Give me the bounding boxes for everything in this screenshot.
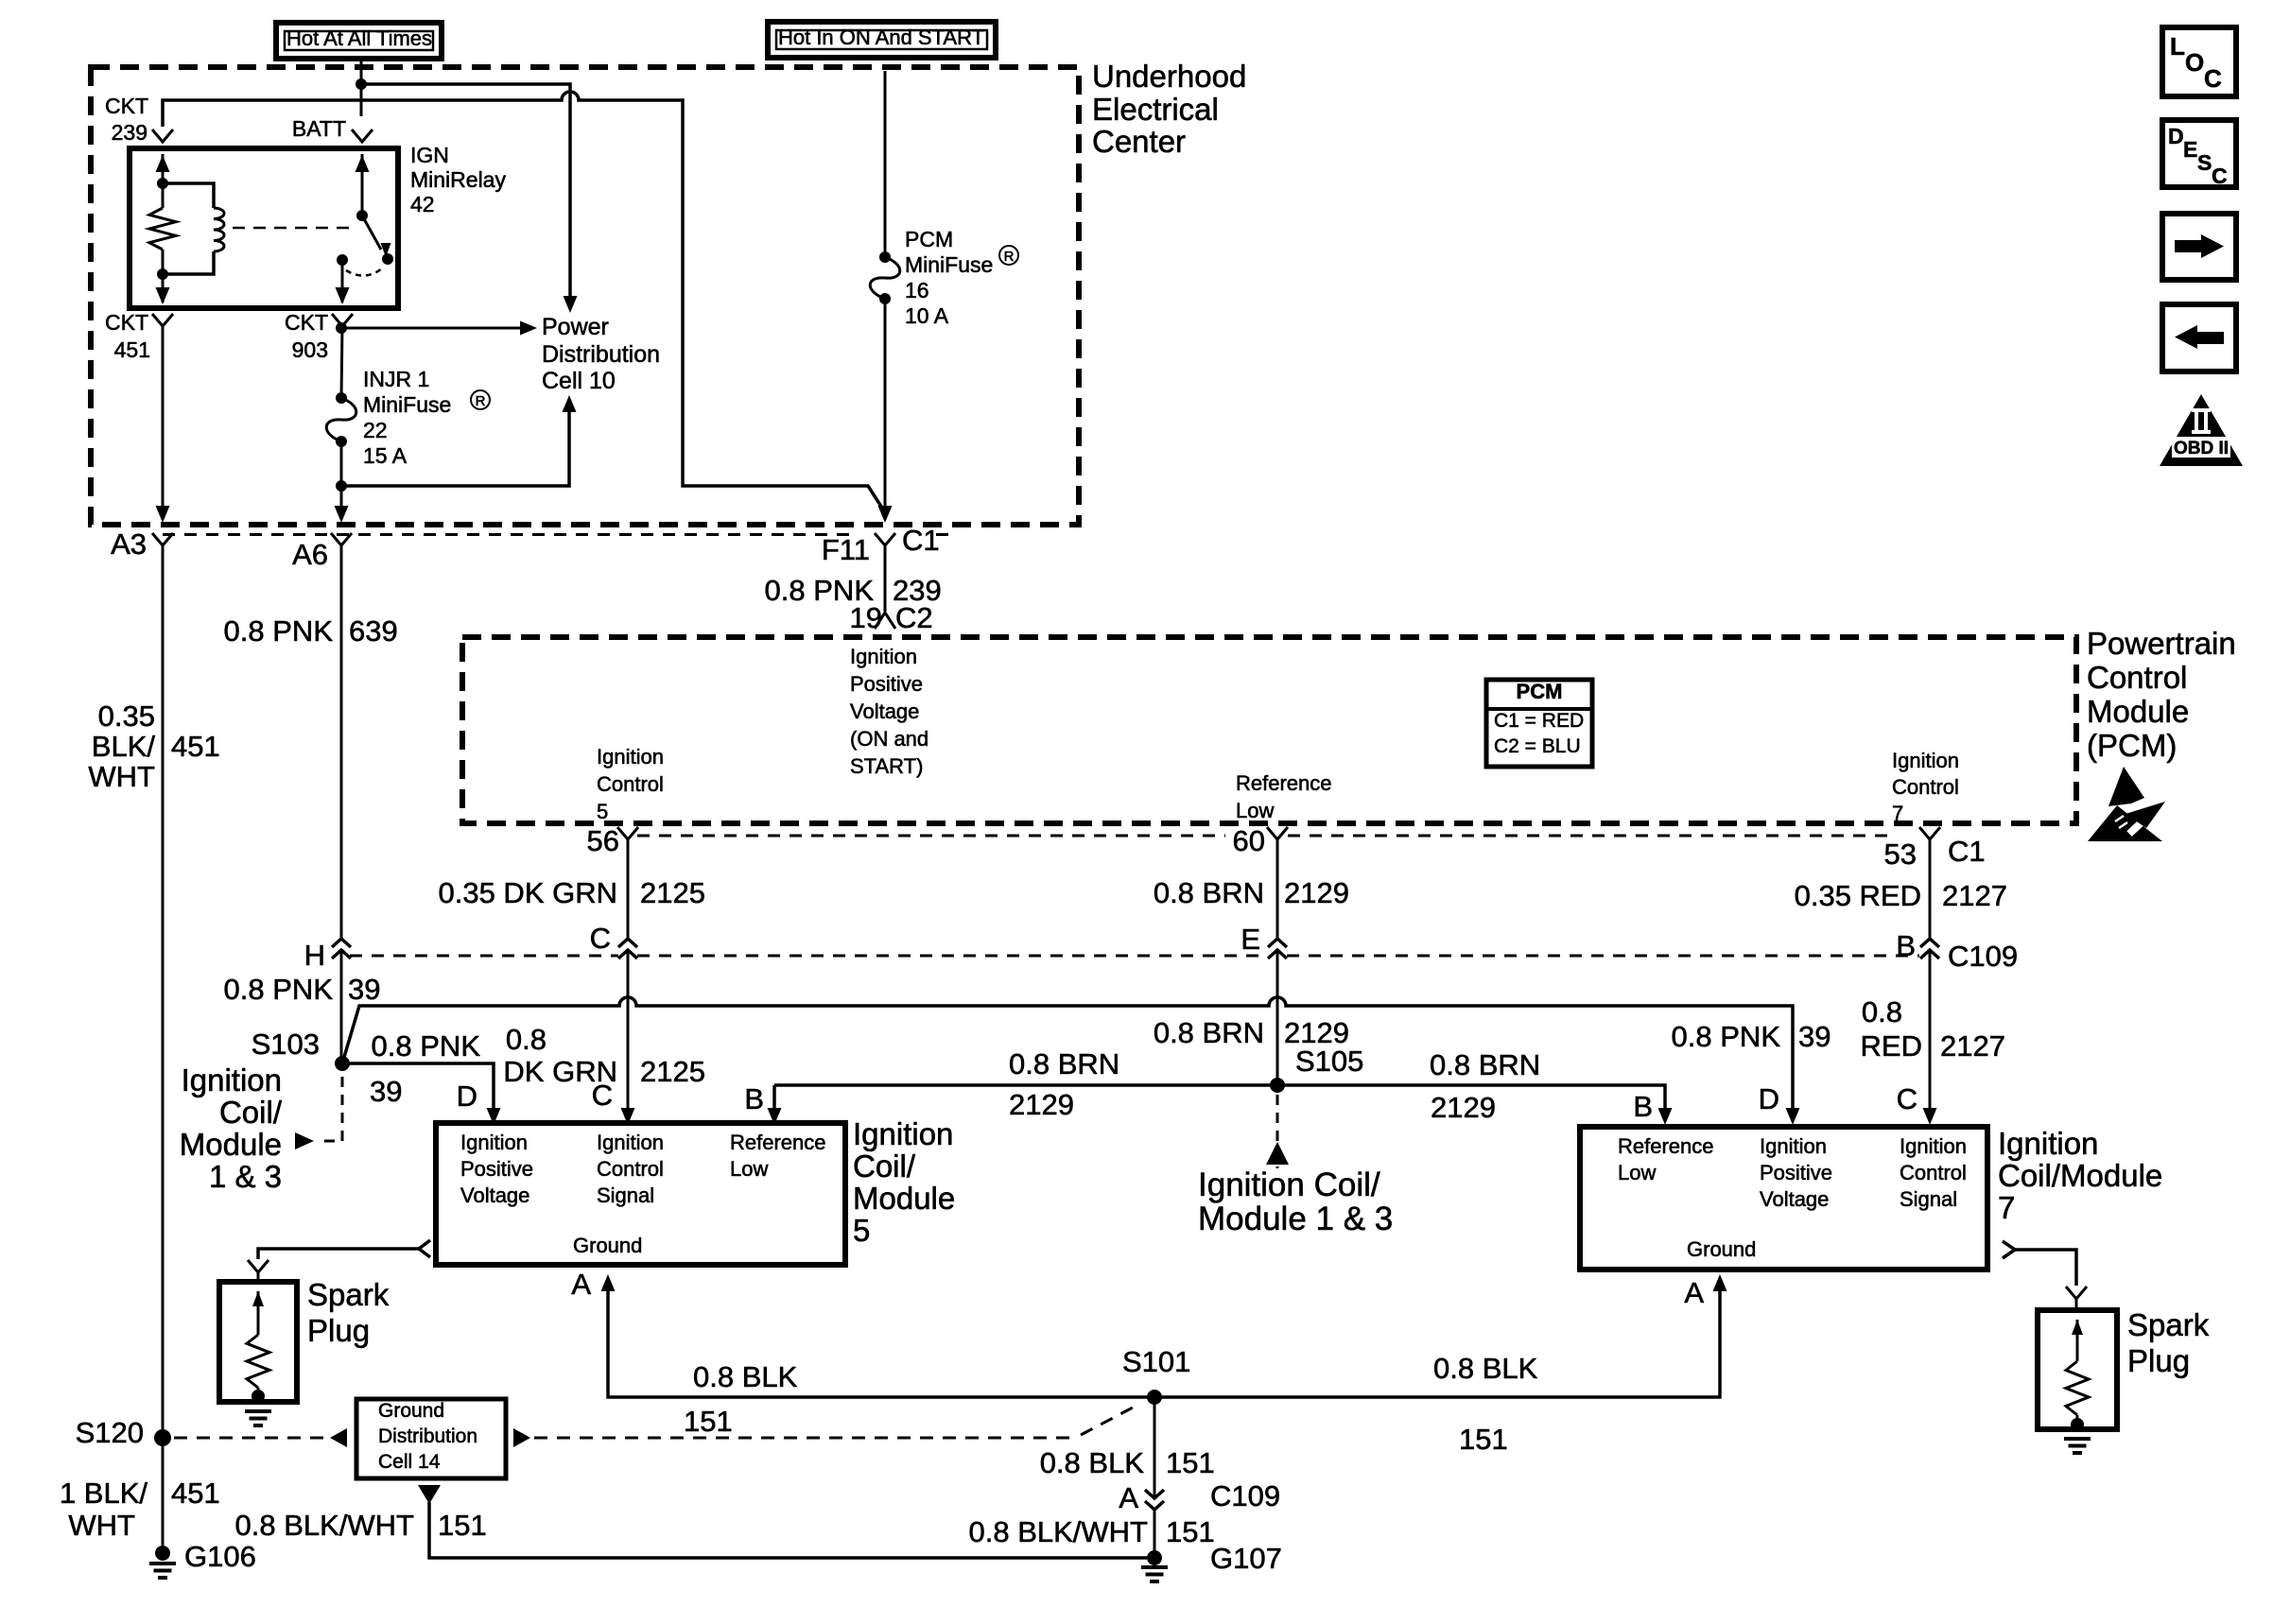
svg-text:39: 39 bbox=[1798, 1020, 1831, 1053]
svg-text:0.8 PNK: 0.8 PNK bbox=[372, 1029, 481, 1063]
label box: Hot At All Times bbox=[276, 23, 442, 59]
wire: S103 long run to right coil module D pin (0.8 PNK 39) bbox=[342, 997, 1793, 1114]
svg-text:Powertrain: Powertrain bbox=[2087, 626, 2236, 661]
right module spark output connector bbox=[2003, 1241, 2015, 1258]
svg-text:IGN: IGN bbox=[410, 143, 449, 167]
svg-text:Distribution: Distribution bbox=[378, 1425, 477, 1447]
C109 harness connector line (thin dashed) bbox=[350, 955, 618, 958]
svg-text:53: 53 bbox=[1884, 838, 1917, 871]
svg-text:151: 151 bbox=[1166, 1515, 1215, 1548]
svg-text:Spark: Spark bbox=[2127, 1307, 2210, 1342]
svg-text:Module: Module bbox=[2087, 694, 2189, 729]
svg-text:5: 5 bbox=[853, 1213, 870, 1248]
arrow to Ignition Coil/Module 1 & 3 bbox=[1266, 1142, 1289, 1165]
connector C at C109 bbox=[626, 940, 631, 950]
relay K: IGN MiniRelay 42 box bbox=[130, 148, 398, 308]
left module ground pin A arrow bbox=[601, 1274, 616, 1291]
ground: left spark plug bbox=[245, 1409, 271, 1413]
svg-text:42: 42 bbox=[410, 192, 435, 216]
svg-text:Plug: Plug bbox=[2127, 1343, 2190, 1378]
svg-text:5: 5 bbox=[597, 800, 608, 823]
node: junction to Power Distribution bbox=[336, 322, 347, 334]
svg-text:MiniFuse: MiniFuse bbox=[905, 252, 993, 277]
svg-text:OBD II: OBD II bbox=[2174, 439, 2229, 458]
svg-text:WHT: WHT bbox=[88, 760, 155, 793]
Powertrain Control Module dashed enclosure bbox=[462, 637, 2076, 823]
wire: RED 2127 to right module C pin bbox=[1923, 1108, 1937, 1125]
svg-text:Low: Low bbox=[1236, 799, 1274, 822]
node S103 splice bbox=[335, 1056, 350, 1071]
svg-text:Control: Control bbox=[597, 1157, 664, 1181]
svg-text:BATT: BATT bbox=[292, 116, 346, 141]
dashed link: Ground Distribution to S101 bbox=[513, 1428, 530, 1447]
svg-text:Ground: Ground bbox=[573, 1234, 642, 1257]
svg-text:Ignition Coil/: Ignition Coil/ bbox=[1198, 1166, 1380, 1203]
connector pin 56 bbox=[617, 827, 638, 839]
connector at right spark plug bbox=[2066, 1287, 2087, 1299]
connector CKT 451 below relay bbox=[152, 314, 173, 326]
svg-text:0.8 BLK: 0.8 BLK bbox=[1040, 1446, 1145, 1479]
connector pin 53 / C1 bbox=[1919, 827, 1940, 839]
connector B at C109 bbox=[1928, 940, 1933, 950]
node: spark plug (right) ground terminal bbox=[2071, 1418, 2084, 1431]
svg-text:0.8 BRN: 0.8 BRN bbox=[1154, 1016, 1264, 1049]
svg-text:151: 151 bbox=[438, 1509, 487, 1542]
svg-text:10 A: 10 A bbox=[905, 303, 949, 328]
svg-text:O: O bbox=[2185, 48, 2204, 77]
svg-text:0.8 BLK: 0.8 BLK bbox=[693, 1360, 798, 1393]
dashed link: S120 to Ground Distribution bbox=[174, 1437, 327, 1440]
svg-text:2125: 2125 bbox=[640, 876, 705, 909]
svg-text:C: C bbox=[2204, 64, 2222, 93]
svg-text:0.8 PNK: 0.8 PNK bbox=[224, 614, 334, 648]
node: relay switch pivot bbox=[356, 210, 368, 221]
svg-text:A: A bbox=[571, 1268, 591, 1301]
svg-text:0.8 PNK: 0.8 PNK bbox=[1672, 1020, 1781, 1053]
svg-text:Ignition: Ignition bbox=[1892, 749, 1959, 772]
connector CKT 239 at relay bbox=[152, 130, 173, 142]
Ground Distribution Cell 14 box bbox=[356, 1399, 506, 1478]
svg-text:D: D bbox=[457, 1080, 477, 1113]
svg-text:S120: S120 bbox=[76, 1416, 144, 1449]
svg-text:PCM: PCM bbox=[1517, 680, 1563, 703]
svg-text:2129: 2129 bbox=[1009, 1088, 1074, 1121]
node: ground G107 bbox=[1147, 1550, 1162, 1565]
connector A / C109 (ground drop) bbox=[1153, 1498, 1157, 1508]
connector 19 / C2 at PCM bbox=[875, 613, 895, 629]
svg-text:Control: Control bbox=[1892, 775, 1959, 799]
svg-text:Plug: Plug bbox=[307, 1313, 370, 1348]
ground G107 symbol bbox=[1141, 1565, 1168, 1569]
svg-text:Ignition: Ignition bbox=[1900, 1134, 1967, 1158]
svg-text:A: A bbox=[1119, 1481, 1138, 1514]
svg-text:Ignition: Ignition bbox=[182, 1063, 282, 1097]
connector at left spark plug bbox=[248, 1260, 269, 1272]
svg-text:7: 7 bbox=[1892, 802, 1903, 825]
svg-text:PCM: PCM bbox=[905, 227, 953, 251]
svg-text:Ignition: Ignition bbox=[1760, 1134, 1827, 1158]
svg-text:639: 639 bbox=[349, 614, 398, 648]
icon: back arrow box bbox=[2162, 304, 2236, 371]
svg-text:0.8: 0.8 bbox=[506, 1023, 547, 1056]
svg-text:B: B bbox=[1896, 929, 1916, 962]
svg-text:C1 = RED: C1 = RED bbox=[1494, 710, 1584, 732]
ESD sensitivity symbol bbox=[2088, 767, 2167, 841]
svg-text:Center: Center bbox=[1092, 124, 1186, 159]
wire: S103 to left coil module D pin (0.8 PNK 39) bbox=[342, 1063, 494, 1114]
svg-text:Control: Control bbox=[1900, 1161, 1967, 1184]
svg-text:C: C bbox=[2212, 164, 2228, 188]
node: relay common contact bbox=[337, 254, 348, 266]
wire: PCM fuse output down to C1 bbox=[884, 299, 887, 510]
svg-text:MiniRelay: MiniRelay bbox=[410, 167, 506, 192]
svg-text:2127: 2127 bbox=[1940, 1029, 2005, 1063]
node S105 splice bbox=[1270, 1078, 1285, 1093]
connector H at C109 bbox=[339, 940, 344, 950]
svg-text:D: D bbox=[1759, 1082, 1779, 1115]
svg-text:Underhood: Underhood bbox=[1092, 59, 1246, 94]
wire: left module to spark plug bbox=[258, 1249, 419, 1259]
svg-text:0.35 DK GRN: 0.35 DK GRN bbox=[438, 876, 617, 909]
svg-text:C: C bbox=[590, 922, 611, 955]
node: relay switch contact bbox=[382, 253, 393, 265]
svg-text:Low: Low bbox=[1618, 1161, 1656, 1184]
connector F11 / C1 bbox=[875, 533, 895, 545]
wire: battery feed to Power Distribution (down arrow at x=603) bbox=[361, 84, 570, 300]
svg-text:Voltage: Voltage bbox=[460, 1183, 529, 1207]
svg-text:0.8 PNK: 0.8 PNK bbox=[224, 973, 334, 1006]
wire: feed to Power Distribution Cell 10 (right arrow) bbox=[341, 327, 522, 330]
wire: C1 to PCM C2 pin bbox=[884, 545, 887, 612]
wire: A3 down to S120 (0.35 BLK/WHT 451) bbox=[162, 545, 165, 1430]
svg-text:Ignition: Ignition bbox=[460, 1131, 528, 1154]
svg-text:903: 903 bbox=[292, 337, 328, 362]
svg-text:Module 1 & 3: Module 1 & 3 bbox=[1198, 1201, 1393, 1237]
svg-text:MiniFuse: MiniFuse bbox=[363, 392, 451, 417]
svg-text:0.35: 0.35 bbox=[98, 700, 155, 733]
svg-text:Module: Module bbox=[853, 1181, 955, 1216]
connector CKT 903 below relay bbox=[332, 314, 353, 326]
node: relay coil top junction bbox=[157, 178, 168, 189]
svg-text:Ignition: Ignition bbox=[597, 1131, 664, 1154]
svg-text:Voltage: Voltage bbox=[1760, 1187, 1829, 1211]
relay switch movable arm bbox=[362, 216, 381, 250]
svg-text:Signal: Signal bbox=[1900, 1187, 1957, 1211]
svg-text:WHT: WHT bbox=[68, 1509, 135, 1542]
svg-text:Cell 10: Cell 10 bbox=[542, 368, 616, 394]
connector pin 60 bbox=[1267, 827, 1288, 839]
relay common contact wire (down arrow) bbox=[341, 260, 344, 302]
connector E at C109 bbox=[1275, 940, 1280, 950]
svg-text:Positive: Positive bbox=[460, 1157, 533, 1181]
wire: return to Power Distribution Cell 10 (up arrow) bbox=[341, 410, 569, 486]
svg-text:(PCM): (PCM) bbox=[2087, 728, 2177, 763]
svg-text:H: H bbox=[304, 939, 325, 972]
svg-text:60: 60 bbox=[1233, 824, 1265, 857]
svg-text:Spark: Spark bbox=[307, 1277, 390, 1312]
node: relay coil bottom junction bbox=[157, 268, 168, 280]
node S120 splice bbox=[154, 1429, 171, 1446]
wire: A6 down to S103 (0.8 PNK 639) bbox=[340, 545, 343, 1063]
svg-text:Cell 14: Cell 14 bbox=[378, 1451, 441, 1473]
svg-text:Ground: Ground bbox=[378, 1400, 444, 1422]
svg-text:Positive: Positive bbox=[1760, 1161, 1832, 1184]
wire: pin 53 to C109 then module C (0.35 RED 2127 / 0.8 RED 2127) bbox=[1929, 839, 1932, 1121]
wire: Hot At All Times feed down to BATT junction bbox=[360, 61, 363, 116]
svg-text:56: 56 bbox=[587, 824, 619, 857]
svg-text:Signal: Signal bbox=[597, 1183, 654, 1207]
spark plug (right) internal resistor bbox=[2072, 1320, 2083, 1335]
Underhood Electrical Center dashed enclosure bbox=[91, 67, 1079, 525]
svg-text:0.8 BLK: 0.8 BLK bbox=[1433, 1352, 1538, 1385]
svg-text:2125: 2125 bbox=[640, 1055, 705, 1088]
dashed stub: S105 to Ignition Coil/Module 1 & 3 bbox=[1276, 1095, 1279, 1168]
svg-text:E: E bbox=[2183, 137, 2197, 162]
svg-text:Ignition: Ignition bbox=[853, 1116, 953, 1151]
svg-text:C2: C2 bbox=[895, 601, 933, 634]
svg-text:CKT: CKT bbox=[105, 94, 148, 118]
svg-text:22: 22 bbox=[363, 418, 388, 442]
fuse F2: INJR 1 MiniFuse 22 15A bbox=[336, 392, 347, 404]
svg-text:Power: Power bbox=[542, 314, 609, 340]
connector A6 bbox=[331, 533, 352, 545]
svg-text:151: 151 bbox=[684, 1405, 733, 1438]
relay coil feed pin (up arrow) bbox=[162, 154, 165, 183]
svg-text:START): START) bbox=[850, 754, 923, 778]
dashed stub: S103 to Ignition Coil/Module 1 & 3 bbox=[318, 1077, 342, 1141]
svg-text:INJR 1: INJR 1 bbox=[363, 367, 429, 391]
right module ground pin A arrow bbox=[1713, 1274, 1727, 1291]
svg-text:G107: G107 bbox=[1210, 1542, 1282, 1575]
svg-text:S105: S105 bbox=[1295, 1045, 1363, 1078]
svg-text:0.8 BRN: 0.8 BRN bbox=[1154, 876, 1264, 909]
svg-text:R: R bbox=[1004, 249, 1015, 265]
svg-text:Ignition: Ignition bbox=[1998, 1126, 2098, 1161]
svg-text:0.8 BLK/WHT: 0.8 BLK/WHT bbox=[969, 1515, 1149, 1548]
wire: reference low bus left module B to S105 to right module B (0.8 BRN 2129) bbox=[772, 1085, 776, 1114]
relay coil output pin (down arrow) bbox=[162, 274, 165, 302]
spark plug (left) box bbox=[219, 1282, 297, 1402]
wire: pin 60 to S105 (0.8 BRN 2129) bbox=[1276, 839, 1279, 1085]
node S101 splice bbox=[1147, 1390, 1162, 1405]
svg-text:Voltage: Voltage bbox=[850, 700, 919, 723]
svg-text:1 & 3: 1 & 3 bbox=[209, 1159, 282, 1194]
svg-text:A: A bbox=[1684, 1276, 1704, 1309]
wire: C109 C to left module C pin bbox=[621, 1108, 635, 1125]
icon: forward arrow box bbox=[2162, 214, 2236, 280]
svg-text:1 BLK/: 1 BLK/ bbox=[60, 1477, 147, 1510]
ground G106 symbol bbox=[149, 1562, 176, 1565]
svg-text:Coil/: Coil/ bbox=[853, 1149, 916, 1183]
wire: Ground Distribution down to G107 (0.8 BLK/WHT 151) bbox=[418, 1485, 441, 1504]
svg-text:Coil/: Coil/ bbox=[219, 1095, 283, 1130]
PCM connector face line (thin dashed) bbox=[637, 835, 1225, 838]
wire: INJR fuse output down to A6 bbox=[340, 441, 343, 510]
svg-text:2129: 2129 bbox=[1284, 876, 1349, 909]
svg-text:39: 39 bbox=[370, 1075, 402, 1108]
svg-text:B: B bbox=[1633, 1090, 1653, 1123]
svg-text:F11: F11 bbox=[822, 533, 870, 566]
svg-text:L: L bbox=[2170, 32, 2185, 60]
wire: Hot In ON And START feed down to PCM fuse bbox=[884, 71, 887, 257]
svg-text:C1: C1 bbox=[1948, 835, 1986, 868]
svg-text:Reference: Reference bbox=[1618, 1134, 1714, 1158]
svg-text:D: D bbox=[2168, 124, 2184, 148]
svg-text:0.8 BRN: 0.8 BRN bbox=[1430, 1048, 1540, 1081]
icon: LOC box bbox=[2162, 27, 2236, 96]
svg-text:Positive: Positive bbox=[850, 672, 923, 696]
svg-text:Control: Control bbox=[2087, 660, 2187, 695]
svg-text:Distribution: Distribution bbox=[542, 341, 660, 368]
wire: pin 56 to C109 (0.35 DK GRN 2125) bbox=[627, 839, 630, 1121]
ignition coil/module 5 box bbox=[436, 1123, 845, 1265]
svg-text:G106: G106 bbox=[184, 1540, 256, 1573]
wire: CKT 903 down to INJR fuse bbox=[341, 326, 342, 398]
svg-text:19: 19 bbox=[850, 601, 882, 634]
label box: Hot In ON And START bbox=[768, 22, 996, 58]
svg-text:Ground: Ground bbox=[1687, 1237, 1756, 1261]
relay armature linkage (dashed) bbox=[233, 227, 354, 230]
left module spark output connector bbox=[419, 1240, 430, 1257]
node: BATT feed junction bbox=[356, 78, 367, 90]
svg-text:BLK/: BLK/ bbox=[92, 730, 156, 763]
svg-text:Ignition: Ignition bbox=[597, 745, 664, 769]
svg-text:0.35 RED: 0.35 RED bbox=[1795, 879, 1921, 912]
node: junction to Cell 10 return bbox=[336, 480, 347, 492]
svg-text:A3: A3 bbox=[111, 527, 147, 561]
node: spark plug (left) ground terminal bbox=[252, 1390, 265, 1403]
connector face line (thin dashed) bbox=[163, 533, 850, 536]
resistor: relay suppression resistor bbox=[162, 183, 165, 208]
ground: right spark plug bbox=[2064, 1437, 2091, 1441]
wire: right module to spark plug bbox=[2015, 1250, 2076, 1286]
svg-text:CKT: CKT bbox=[285, 310, 328, 335]
PCM connector legend box bbox=[1486, 680, 1592, 767]
connector A3 bbox=[152, 533, 173, 545]
svg-text:Ignition: Ignition bbox=[850, 645, 917, 668]
wire: CKT 239 branch riser and cross-over to PCM C1 feed bbox=[163, 92, 885, 512]
svg-text:C109: C109 bbox=[1948, 940, 2018, 973]
svg-text:0.8: 0.8 bbox=[1862, 995, 1902, 1028]
svg-text:S103: S103 bbox=[252, 1028, 320, 1061]
svg-text:B: B bbox=[744, 1082, 764, 1115]
svg-text:151: 151 bbox=[1166, 1446, 1215, 1479]
svg-text:S: S bbox=[2197, 150, 2212, 175]
connector BATT at relay bbox=[352, 130, 373, 142]
svg-text:Control: Control bbox=[597, 772, 664, 796]
svg-text:Hot At All Times: Hot At All Times bbox=[286, 26, 432, 50]
node: ground G106 bbox=[155, 1546, 170, 1561]
relay switch BATT pin (up arrow) bbox=[361, 154, 364, 216]
svg-text:451: 451 bbox=[171, 1477, 220, 1510]
svg-text:C109: C109 bbox=[1210, 1479, 1280, 1512]
svg-text:Module: Module bbox=[180, 1127, 282, 1162]
svg-text:C: C bbox=[1897, 1082, 1917, 1115]
svg-text:16: 16 bbox=[905, 278, 929, 302]
svg-text:151: 151 bbox=[1459, 1423, 1508, 1456]
svg-text:239: 239 bbox=[112, 120, 147, 145]
svg-text:0.8 BRN: 0.8 BRN bbox=[1009, 1047, 1119, 1080]
wire: ground bus left module A to S101 to right module A (0.8 BLK 151) bbox=[608, 1283, 1720, 1397]
svg-text:CKT: CKT bbox=[105, 310, 148, 335]
svg-text:C2 = BLU: C2 = BLU bbox=[1494, 735, 1581, 757]
relay coil L1 bbox=[163, 183, 214, 208]
svg-text:Electrical: Electrical bbox=[1092, 92, 1219, 127]
svg-text:C: C bbox=[592, 1079, 613, 1112]
fuse F1: PCM MiniFuse 16 10A bbox=[879, 251, 891, 263]
ignition coil/module 7 box bbox=[1580, 1127, 1987, 1270]
svg-text:7: 7 bbox=[1998, 1190, 2015, 1225]
svg-text:R: R bbox=[476, 393, 486, 409]
svg-text:Coil/Module: Coil/Module bbox=[1998, 1158, 2162, 1193]
svg-text:RED: RED bbox=[1861, 1029, 1922, 1063]
svg-text:39: 39 bbox=[348, 973, 380, 1006]
spark plug (left) internal resistor bbox=[252, 1291, 264, 1306]
svg-text:Reference: Reference bbox=[1236, 771, 1332, 795]
svg-text:451: 451 bbox=[171, 730, 220, 763]
svg-text:S101: S101 bbox=[1122, 1345, 1190, 1378]
svg-text:Hot In ON And START: Hot In ON And START bbox=[778, 26, 984, 49]
svg-text:0.8 BLK/WHT: 0.8 BLK/WHT bbox=[235, 1509, 415, 1542]
wire: S120 down to G106 (1 BLK/WHT 451) bbox=[162, 1438, 165, 1553]
svg-text:15 A: 15 A bbox=[363, 443, 408, 468]
svg-text:451: 451 bbox=[114, 337, 150, 362]
svg-text:E: E bbox=[1241, 923, 1260, 956]
wire: S101 to G107 (0.8 BLK 151 / 0.8 BLK/WHT 151) bbox=[1154, 1397, 1156, 1558]
svg-text:2127: 2127 bbox=[1942, 879, 2007, 912]
icon: OBD II triangle bbox=[2160, 394, 2243, 466]
svg-text:C1: C1 bbox=[902, 524, 940, 557]
svg-text:Reference: Reference bbox=[730, 1131, 826, 1154]
svg-text:Low: Low bbox=[730, 1157, 768, 1181]
wire: CKT 451 down to A3 bbox=[162, 326, 165, 510]
relay switch throw arc (dashed) bbox=[346, 268, 382, 276]
svg-text:(ON and: (ON and bbox=[850, 727, 928, 751]
icon: DESC box bbox=[2162, 120, 2236, 187]
spark plug (right) box bbox=[2038, 1310, 2117, 1429]
svg-text:2129: 2129 bbox=[1431, 1091, 1496, 1124]
svg-text:A6: A6 bbox=[292, 538, 328, 571]
